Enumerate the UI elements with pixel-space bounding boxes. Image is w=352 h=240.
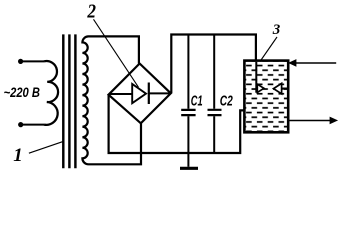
capacitor C2 plates — [208, 110, 222, 115]
transformer core line 3 — [74, 34, 76, 168]
winding primary T1 — [44, 61, 58, 125]
leader line label 1 — [29, 141, 64, 153]
diode anode lead — [109, 93, 133, 95]
svg-text:3: 3 — [272, 22, 281, 38]
leader line label 2 — [94, 19, 139, 87]
capacitor C1 plates — [181, 110, 195, 115]
outlet flow arrow — [289, 120, 330, 122]
leader line label 3 — [260, 37, 277, 62]
svg-text:1: 1 — [13, 145, 23, 166]
transformer core line 2 — [68, 34, 70, 168]
electrode right stub — [282, 87, 288, 89]
tank 3 body — [244, 61, 288, 133]
electrode left arrowhead — [257, 84, 264, 92]
capacitor C2 top lead — [213, 35, 215, 109]
wire negative rail from bridge left vertex to tank wall — [109, 95, 245, 153]
winding secondary with AC wires to bridge — [82, 36, 141, 164]
electrode right arrowhead — [274, 83, 282, 93]
wire top input lead — [21, 60, 44, 62]
diode cathode lead — [149, 92, 171, 94]
svg-text:~220 В: ~220 В — [4, 85, 41, 100]
bridge rectifier diamond VD1 — [109, 64, 171, 124]
capacitor C2 bottom lead — [213, 116, 215, 153]
wire bottom input lead — [21, 124, 44, 126]
capacitor C1 bottom lead — [187, 116, 189, 167]
svg-text:C1: C1 — [191, 94, 203, 110]
capacitor C1 top lead — [187, 35, 189, 109]
electrode left wire — [255, 62, 257, 93]
ground symbol — [180, 167, 198, 170]
diode cathode bar — [148, 83, 150, 105]
terminal dot bottom input — [18, 122, 23, 127]
inlet flow arrow — [296, 62, 337, 64]
diode triangle — [132, 84, 146, 103]
transformer core line 1 — [62, 34, 64, 168]
svg-text:C2: C2 — [220, 94, 233, 110]
wire positive rail from bridge to tank electrode — [171, 35, 256, 94]
svg-text:2: 2 — [87, 2, 97, 23]
terminal dot top input — [18, 59, 23, 64]
